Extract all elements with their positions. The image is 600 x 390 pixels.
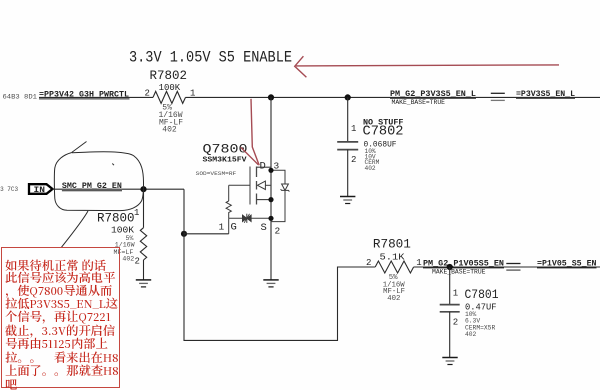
svg-text:IN: IN xyxy=(34,185,46,195)
wire top main xyxy=(186,96,600,98)
svg-text:2: 2 xyxy=(366,258,371,268)
wire Q7800 drain rail xyxy=(270,97,272,279)
net tie marks bottom xyxy=(506,264,520,271)
svg-text:SMC_PM_G2_EN: SMC_PM_G2_EN xyxy=(62,181,122,191)
resistor R7801 xyxy=(366,238,422,303)
svg-text:S: S xyxy=(261,222,267,234)
annotation balloon xyxy=(54,142,143,211)
ground R7800 xyxy=(136,280,151,287)
wire SMC_PM_G2_EN xyxy=(53,188,185,190)
svg-text:1: 1 xyxy=(134,208,139,218)
svg-text:402: 402 xyxy=(365,165,376,172)
svg-text:D: D xyxy=(260,161,266,173)
svg-text:=P3V3S5_EN_L: =P3V3S5_EN_L xyxy=(516,89,575,99)
svg-text:SOD=VESM=RF: SOD=VESM=RF xyxy=(196,171,237,177)
svg-text:MAKE_BASE=TRUE: MAKE_BASE=TRUE xyxy=(432,268,486,275)
ground C7802 xyxy=(340,197,355,204)
capacitor C7801 xyxy=(440,288,499,338)
svg-text:2: 2 xyxy=(145,88,150,98)
red arrow long xyxy=(295,56,559,77)
svg-text:Q7800: Q7800 xyxy=(203,143,248,157)
svg-text:2: 2 xyxy=(135,256,140,266)
input port IN xyxy=(29,184,53,195)
ground Q7800 source xyxy=(263,280,278,287)
net label SMC_PM_G2_EN xyxy=(62,181,122,191)
annotation textbox xyxy=(1,247,120,388)
svg-text:2: 2 xyxy=(453,318,458,328)
svg-text:C7802: C7802 xyxy=(363,124,404,139)
ground C7801 xyxy=(442,358,457,365)
wire C7801 branch lower xyxy=(449,312,451,357)
svg-text:100K: 100K xyxy=(159,83,181,93)
transistor Q7800 xyxy=(196,143,290,237)
svg-text:PM_G2_P1V05S5_EN: PM_G2_P1V05S5_EN xyxy=(423,259,504,269)
svg-text:PM_G2_P3V3S5_EN_L: PM_G2_P3V3S5_EN_L xyxy=(390,89,476,99)
net label =PP3V42_G3H_PWRCTL xyxy=(39,90,130,100)
svg-text:R7800: R7800 xyxy=(97,212,135,226)
wire C7802 branch lower xyxy=(347,150,349,197)
svg-text:3.3V 1.05V S5 ENABLE: 3.3V 1.05V S5 ENABLE xyxy=(129,49,292,67)
net label PM_G2_P1V05S5_EN xyxy=(423,259,504,269)
svg-text:1: 1 xyxy=(219,222,225,233)
net label PM_G2_P3V3S5_EN_L xyxy=(390,89,476,99)
red arrow Q7800 xyxy=(241,99,260,166)
resistor R7800 xyxy=(97,189,147,279)
junction node gate branch xyxy=(181,231,187,237)
wire bottom main xyxy=(414,266,600,268)
junction node C7802 xyxy=(345,94,351,100)
junction node Q7800 drain xyxy=(268,94,274,100)
wire gate branch xyxy=(184,233,229,235)
svg-text:402: 402 xyxy=(162,126,177,135)
svg-text:64B3 8D1: 64B3 8D1 xyxy=(3,93,38,100)
wire top left xyxy=(39,96,153,98)
svg-text:B3 7C3: B3 7C3 xyxy=(0,186,19,193)
svg-text:1: 1 xyxy=(190,88,195,98)
svg-text:C7801: C7801 xyxy=(465,288,499,302)
wire vertical and detour xyxy=(184,189,375,340)
svg-text:R7802: R7802 xyxy=(150,69,188,83)
svg-text:100K: 100K xyxy=(111,225,135,235)
wire C7801 branch upper xyxy=(449,267,451,304)
svg-text:1: 1 xyxy=(453,289,458,299)
balloon tick xyxy=(112,164,114,166)
net label =P1V05_S5_EN xyxy=(537,259,597,269)
svg-text:402: 402 xyxy=(122,256,134,263)
annotation balloon tail xyxy=(62,211,89,247)
svg-text:MAKE_BASE=TRUE: MAKE_BASE=TRUE xyxy=(392,99,446,106)
svg-text:1: 1 xyxy=(416,258,421,268)
svg-text:SSM3K15FV: SSM3K15FV xyxy=(203,157,248,165)
junction node R7800 xyxy=(140,186,146,192)
capacitor C7802 xyxy=(337,117,403,171)
svg-text:=P1V05_S5_EN: =P1V05_S5_EN xyxy=(537,259,597,269)
svg-text:2: 2 xyxy=(351,155,356,165)
net tie marks top xyxy=(491,93,505,100)
svg-text:2: 2 xyxy=(275,226,281,237)
resistor R7802 xyxy=(145,69,196,135)
svg-text:402: 402 xyxy=(465,331,477,338)
svg-text:G: G xyxy=(231,222,237,234)
svg-text:=PP3V42_G3H_PWRCTL: =PP3V42_G3H_PWRCTL xyxy=(39,90,129,100)
svg-text:402: 402 xyxy=(387,295,400,303)
svg-text:R7801: R7801 xyxy=(373,238,411,252)
net label =P3V3S5_EN_L xyxy=(516,89,575,99)
junction node C7801 xyxy=(447,264,453,270)
svg-text:1: 1 xyxy=(351,124,356,134)
svg-text:5.1K: 5.1K xyxy=(380,253,406,263)
wire C7802 branch upper xyxy=(347,97,349,141)
